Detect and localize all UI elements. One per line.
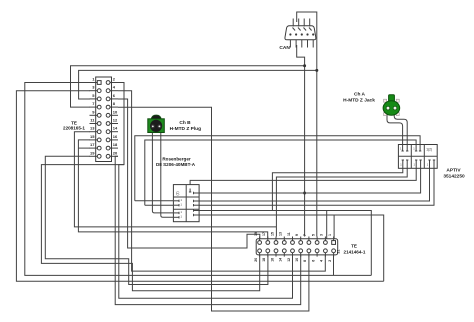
bottom connector top pin col 9 bbox=[324, 237, 326, 241]
wire pin1L to pin9b bottom loop bbox=[25, 83, 372, 276]
svg-text:6: 6 bbox=[311, 260, 315, 262]
svg-text:9: 9 bbox=[295, 234, 299, 236]
svg-text:17: 17 bbox=[90, 142, 95, 147]
rosenberger right cell pin stubs bbox=[194, 192, 200, 194]
wire H1 into rosenberger mid-left upper bbox=[135, 200, 174, 202]
svg-text:2208165-1: 2208165-1 bbox=[63, 126, 85, 131]
svg-text:Ch B: Ch B bbox=[179, 120, 191, 126]
pin 13 circle bbox=[97, 130, 101, 134]
svg-text:21: 21 bbox=[337, 250, 341, 254]
bottom connector top pin col 6 bbox=[300, 237, 302, 241]
svg-text:35142250: 35142250 bbox=[443, 173, 465, 179]
svg-text:(2): (2) bbox=[176, 191, 180, 195]
wire H2 bridge to APTIV c2 top p1 bbox=[145, 140, 416, 205]
svg-text:12: 12 bbox=[113, 118, 118, 123]
Ch A jack body circle bbox=[383, 101, 400, 116]
svg-text:7: 7 bbox=[303, 234, 307, 236]
Ch A jack pin 1 bbox=[386, 106, 390, 110]
pin 6 circle bbox=[106, 97, 110, 101]
Ch B plug inner circle bbox=[150, 120, 162, 132]
svg-text:3: 3 bbox=[320, 234, 324, 236]
svg-text:TE: TE bbox=[351, 244, 357, 249]
wire ChA jack pin1 curve to APTIV c1 top p1 bbox=[387, 114, 403, 145]
wire H1 ChB bridge to APTIV c2 top p2 bbox=[135, 136, 420, 201]
bottom connector bottom pin col 2 bbox=[267, 253, 269, 257]
svg-text:15: 15 bbox=[270, 232, 274, 236]
wire pin13L bus1 to pin3top bbox=[74, 132, 276, 227]
pin 10 circle bbox=[106, 113, 110, 117]
wire pin10b drop bbox=[333, 253, 335, 276]
pin 18 circle bbox=[106, 146, 110, 150]
bottom connector top pin col 1 bbox=[259, 237, 261, 241]
Ch A jack top tab bbox=[389, 95, 395, 103]
bottom connector bottom pin col 1 bbox=[259, 253, 261, 257]
wire pin19L branch around connector corner to pin2b bbox=[45, 156, 268, 284]
pin 5 lead bbox=[90, 98, 98, 100]
pin 9 lead bbox=[90, 114, 98, 116]
pin 20 circle bbox=[106, 154, 110, 158]
wire ros r3 lower net to pin3L loop bbox=[199, 215, 384, 281]
pin 2 circle bbox=[106, 81, 110, 85]
pin 8 circle bbox=[106, 105, 110, 109]
pin 18 lead bbox=[110, 147, 118, 149]
bottom connector bottom pin col 4 bbox=[283, 253, 285, 257]
pin 19 circle bbox=[97, 154, 101, 158]
pin 2 lead bbox=[110, 82, 118, 84]
bottom connector top pin col 2 bbox=[267, 237, 269, 241]
wire pin15L bus2 to pin2top bbox=[78, 140, 267, 239]
bottom connector bottom pin col 6 bbox=[300, 253, 302, 257]
pin 3 circle bbox=[97, 89, 101, 93]
svg-text:13: 13 bbox=[90, 126, 95, 131]
CAN pin stubs top row bbox=[292, 19, 294, 27]
svg-text:12: 12 bbox=[287, 258, 291, 262]
wire pin8R long vertical to pin7b bbox=[118, 107, 309, 311]
svg-text:H-MTD Z Jack: H-MTD Z Jack bbox=[343, 98, 375, 104]
svg-text:Ch A: Ch A bbox=[354, 91, 366, 97]
svg-text:10: 10 bbox=[113, 109, 118, 114]
pin 16 circle bbox=[106, 138, 110, 142]
pin 12 lead bbox=[110, 123, 118, 125]
pin 11 lead bbox=[90, 123, 98, 125]
wire under-connector segment to left loop bbox=[41, 165, 259, 291]
bottom connector top pin col 3 bbox=[275, 237, 277, 241]
svg-text:14: 14 bbox=[113, 126, 118, 131]
svg-text:5: 5 bbox=[311, 234, 315, 236]
bottom connector top pin col 5 bbox=[292, 237, 294, 241]
pin 7 circle bbox=[97, 105, 101, 109]
svg-text:H-MTD Z Plug: H-MTD Z Plug bbox=[170, 126, 202, 132]
pin 3 lead bbox=[90, 90, 98, 92]
wire H2 into rosenberger mid-left lower bbox=[145, 204, 174, 206]
svg-text:D8 S206-40MBT-A: D8 S206-40MBT-A bbox=[156, 162, 196, 167]
Ch B H-MTD Z plug body bbox=[151, 115, 161, 120]
pin 7 lead bbox=[90, 106, 98, 108]
svg-text:19: 19 bbox=[90, 150, 95, 155]
wire pin17L join bbox=[78, 147, 90, 149]
wire ChB plug pin1 down to ros bot-left upper bbox=[152, 132, 174, 213]
svg-text:APTIV: APTIV bbox=[446, 168, 461, 174]
pin 4 circle bbox=[106, 89, 110, 93]
pin 15 circle bbox=[97, 138, 101, 142]
bottom connector bottom pin col 3 bbox=[275, 253, 277, 257]
svg-text:2: 2 bbox=[328, 260, 332, 262]
APTIV connector body bbox=[398, 145, 437, 169]
wire branch up to APTIV c1 bottom p1 bbox=[272, 168, 402, 210]
wire ros r1 lower through CANL dot to APTIV c2 bottom p2 bbox=[199, 168, 421, 193]
CAN pin stubs bottom row bbox=[289, 40, 291, 48]
wire ros r2 upper to APTIV c3 bottom p1 bbox=[199, 168, 429, 201]
svg-text:16: 16 bbox=[113, 134, 118, 139]
svg-text:18: 18 bbox=[113, 142, 118, 147]
wire ros top-right loop to APTIV c2 bottom p1 bbox=[190, 168, 416, 188]
APTIV bottom row pin stubs bbox=[402, 160, 404, 168]
svg-text:11: 11 bbox=[287, 232, 291, 236]
wire ChA jack pin2 curve to APTIV c1 top p2 bbox=[394, 114, 407, 145]
pin 17 circle bbox=[97, 146, 101, 150]
pin 19 lead bbox=[90, 155, 98, 157]
connector TE 2208165-1 body bbox=[96, 77, 112, 162]
svg-text:18: 18 bbox=[262, 258, 266, 262]
svg-text:19: 19 bbox=[254, 232, 258, 236]
bottom connector bottom pin col 8 bbox=[316, 253, 318, 257]
svg-text:4: 4 bbox=[320, 260, 324, 262]
wire ros r2 lower to APTIV c3 bottom p2 bbox=[199, 168, 434, 205]
pin 12 circle bbox=[106, 122, 110, 126]
CAN pin dots bottom row inside bbox=[289, 33, 291, 35]
wire ros r3 upper net to pin10b bbox=[199, 211, 371, 276]
bottom connector top pin col 8 bbox=[316, 237, 318, 241]
wire pin3L long bottom loop bbox=[16, 91, 383, 282]
bottom connector top pin col 10 bbox=[333, 237, 335, 241]
Ch A H-MTD Z jack corner squares bbox=[384, 99, 387, 102]
pin 1 square bbox=[97, 81, 101, 85]
wire pin10top drop bbox=[333, 215, 335, 239]
svg-text:1: 1 bbox=[328, 234, 332, 236]
wire branch up to APTIV c1 bottom p2 bbox=[276, 168, 407, 236]
svg-text:CAN: CAN bbox=[279, 45, 290, 51]
pin 20 lead bbox=[110, 155, 118, 157]
pin 8 lead bbox=[110, 106, 118, 108]
APTIV top row pin stubs bbox=[402, 145, 404, 152]
junction dot CANL mid bbox=[303, 192, 306, 195]
svg-text:2141464-1: 2141464-1 bbox=[344, 249, 366, 254]
rosenberger jack block body bbox=[173, 185, 199, 222]
bottom connector top pin col 4 bbox=[283, 237, 285, 241]
pin 9 circle bbox=[97, 113, 101, 117]
wire CAN top loop bbox=[297, 12, 317, 237]
pin 17 lead bbox=[90, 147, 98, 149]
pin 14 lead bbox=[110, 131, 118, 133]
junction dot CANH/pin5 bbox=[315, 69, 318, 72]
svg-text:1(2): 1(2) bbox=[426, 148, 432, 152]
CAN pin slashes top row inside bbox=[293, 28, 296, 31]
connector CAN DB9 shell bbox=[285, 26, 316, 40]
rosenberger top-right pin stub up bbox=[189, 189, 191, 193]
junction dot CANL/pin7 bbox=[303, 64, 306, 67]
wire ChB plug pin2 down to ros bot-left lower bbox=[161, 132, 174, 217]
rosenberger left cell pin stubs bbox=[174, 200, 179, 202]
pin 10 lead bbox=[110, 114, 118, 116]
pin 5 circle bbox=[97, 97, 101, 101]
wire net pin7-CANL top bus bbox=[71, 66, 305, 107]
svg-text:14: 14 bbox=[279, 258, 283, 262]
pin 1 lead bbox=[90, 82, 98, 84]
bottom connector bottom pin col 9 bbox=[324, 253, 326, 257]
svg-text:10: 10 bbox=[295, 258, 299, 262]
pin 6 lead bbox=[110, 98, 118, 100]
svg-text:20: 20 bbox=[113, 150, 118, 155]
svg-text:16: 16 bbox=[270, 258, 274, 262]
svg-text:8: 8 bbox=[303, 260, 307, 262]
wire net pin5-CANH top bus bbox=[79, 70, 317, 99]
pin 15 lead bbox=[90, 139, 98, 141]
wire pin6R to pin1b bbox=[118, 99, 260, 248]
bottom connector bottom pin col 7 bbox=[308, 253, 310, 257]
pin 11 circle bbox=[97, 122, 101, 126]
svg-text:17: 17 bbox=[262, 232, 266, 236]
wire CAN bottom route bbox=[297, 45, 305, 237]
bottom connector bottom pin col 10 bbox=[333, 253, 335, 257]
bottom connector bottom pin col 5 bbox=[292, 253, 294, 257]
wire pin9top drop bbox=[326, 211, 328, 239]
wire pin20R jog bbox=[115, 156, 301, 304]
pin 14 circle bbox=[106, 130, 110, 134]
svg-text:13: 13 bbox=[279, 232, 283, 236]
wire pin2R down to pin5b bbox=[118, 83, 293, 299]
svg-text:15: 15 bbox=[90, 134, 95, 139]
Ch B plug pin 2 bbox=[157, 124, 161, 128]
pin 13 lead bbox=[90, 131, 98, 133]
svg-text:Rosenberger: Rosenberger bbox=[162, 157, 191, 162]
Ch B plug pin 1 bbox=[151, 124, 155, 128]
bottom connector TE 2141464-1 body bbox=[256, 239, 338, 255]
pin 16 lead bbox=[110, 139, 118, 141]
Ch A jack pin 2 bbox=[393, 106, 397, 110]
svg-text:20: 20 bbox=[254, 258, 258, 262]
bottom connector top pin col 7 bbox=[308, 237, 310, 241]
pin 4 lead bbox=[110, 90, 118, 92]
wire pin4R to pin2b bbox=[118, 91, 325, 271]
